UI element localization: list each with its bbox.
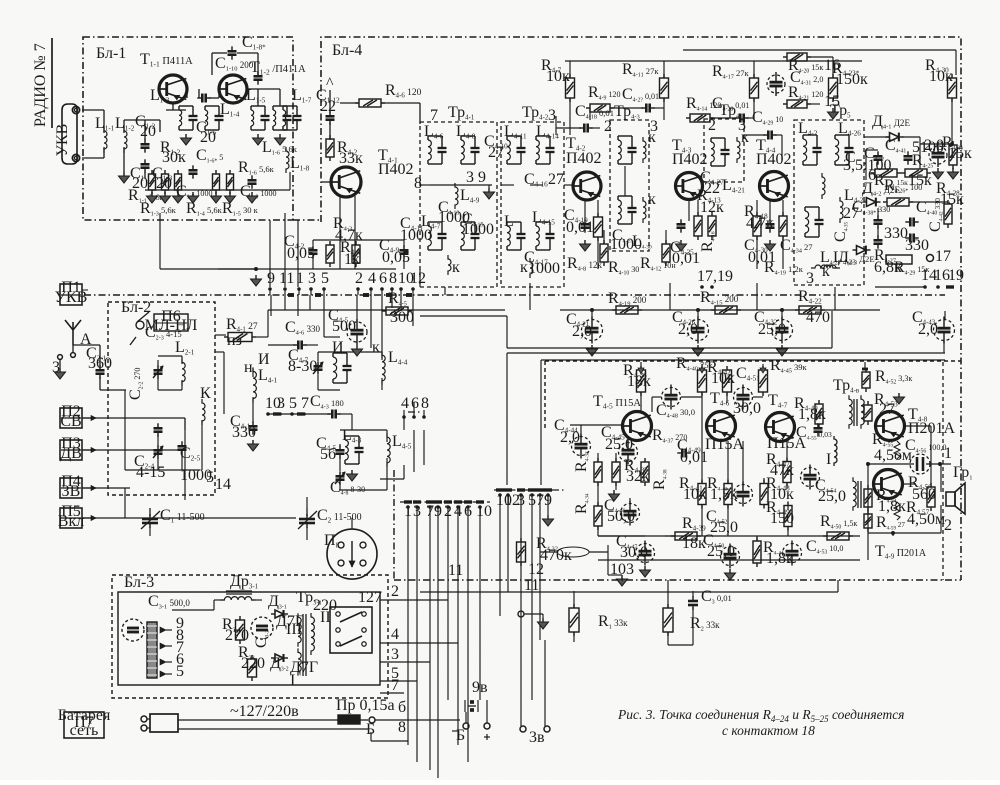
coil L4-26 <box>835 134 849 136</box>
plus terminal <box>701 364 703 368</box>
transformer driver winding <box>853 477 856 511</box>
svg-text:Вкл: Вкл <box>58 513 84 530</box>
svg-text:пз: пз <box>227 332 242 349</box>
terminal Б minus <box>463 723 469 729</box>
ground under row B <box>547 495 549 515</box>
wire <box>149 527 151 536</box>
transistor T1-1 leads <box>159 120 161 132</box>
svg-text:3: 3 <box>806 270 814 287</box>
ground <box>680 240 682 244</box>
svg-text:3: 3 <box>277 395 285 412</box>
svg-text:2: 2 <box>391 583 399 600</box>
transformer Тр4-1 box <box>420 122 497 287</box>
svg-text:17: 17 <box>935 248 951 265</box>
resistor R4-33 18к <box>594 462 602 482</box>
wire <box>569 61 571 78</box>
wire <box>667 580 669 608</box>
wire top bus 1 <box>565 60 862 62</box>
svg-text:к: к <box>648 129 656 146</box>
ground <box>584 240 586 244</box>
wire <box>499 592 501 616</box>
svg-text:1000: 1000 <box>462 221 494 238</box>
tank L4-10 <box>461 221 475 223</box>
wire <box>688 200 690 221</box>
svg-text:УКВ: УКВ <box>54 124 71 157</box>
svg-text:Бл-1: Бл-1 <box>96 45 126 62</box>
terminal 3в <box>520 726 526 732</box>
wire <box>184 418 186 430</box>
switch row B contacts <box>494 489 566 491</box>
coil L4-28 mid <box>822 173 825 199</box>
svg-text:н: н <box>244 359 253 376</box>
capacitor C1-3 20 <box>141 163 150 166</box>
svg-text:9в: 9в <box>472 679 488 696</box>
wire <box>82 289 88 291</box>
ground <box>356 345 358 349</box>
wire <box>640 392 642 411</box>
ground <box>59 360 61 368</box>
wire <box>178 719 338 721</box>
svg-text:Бл-3: Бл-3 <box>124 574 154 591</box>
wire bottom bus <box>420 591 838 593</box>
wire <box>584 200 586 221</box>
wire <box>370 732 372 741</box>
capacitor C3-2 500,0 <box>251 617 273 639</box>
svg-text:2: 2 <box>708 117 716 134</box>
transistor T1-1 П411А <box>159 75 187 103</box>
wire <box>876 201 878 203</box>
svg-text:8: 8 <box>389 270 397 287</box>
svg-text:27: 27 <box>488 144 504 161</box>
svg-text:1000: 1000 <box>400 227 432 244</box>
wire <box>501 184 514 186</box>
capacitor C4-31 2,0 <box>767 75 785 93</box>
wire <box>580 425 582 436</box>
wire <box>610 107 643 109</box>
ground <box>488 188 490 192</box>
svg-text:3: 3 <box>308 270 316 287</box>
wire <box>82 449 96 451</box>
coil L4-1 <box>253 367 256 402</box>
coil bottom Тр4-2 <box>530 258 533 278</box>
wire <box>380 599 448 601</box>
switch box П3 ДВ <box>60 440 82 460</box>
tank L4-3 <box>345 435 359 437</box>
capacitor C4-37 5100 <box>904 155 913 158</box>
svg-text:5: 5 <box>289 395 297 412</box>
svg-text:22: 22 <box>704 180 720 197</box>
tank L4-8 <box>461 135 475 137</box>
svg-text:5б: 5б <box>320 446 336 463</box>
svg-text:Б: Б <box>456 727 465 744</box>
svg-text:12: 12 <box>410 270 426 287</box>
tank Тр4-4 <box>711 137 725 139</box>
resistor R1-3 5,6к <box>162 174 169 190</box>
wire <box>597 453 599 462</box>
wire vertical drops to bus1 <box>591 310 593 320</box>
transistor T4-9 П201А <box>874 470 903 499</box>
resistor R4-8 12к <box>594 217 603 237</box>
switch row A contacts <box>400 501 490 503</box>
wire top bus 2 <box>683 49 956 51</box>
wire <box>419 269 421 287</box>
resistor R1-4 <box>175 174 182 190</box>
resistor R1-6 5,6к <box>227 174 234 190</box>
svg-text:8: 8 <box>414 175 422 192</box>
wire <box>340 102 359 104</box>
wire left long <box>184 418 186 500</box>
wire collector/emitter T4-1 <box>339 196 341 269</box>
choke Др3-1 <box>220 597 255 600</box>
block audio inner right dashed edge <box>942 362 944 580</box>
svg-text:500: 500 <box>332 318 356 335</box>
wire <box>157 360 159 366</box>
ground <box>898 393 900 397</box>
block Бл-3 outline <box>112 575 388 698</box>
block audio bottom dash-dot <box>394 579 961 581</box>
svg-text:30,0: 30,0 <box>733 400 761 417</box>
svg-text:ДВ: ДВ <box>60 445 82 462</box>
wire <box>573 591 575 608</box>
wire <box>769 200 771 221</box>
svg-text:20: 20 <box>200 129 216 146</box>
wire long verticals from above <box>506 353 508 485</box>
ground <box>832 108 834 112</box>
svg-text:ЗВ: ЗВ <box>62 483 81 500</box>
tank L4-2 osc <box>333 352 347 354</box>
rectifier diode arrows <box>160 627 166 633</box>
svg-text:10к: 10к <box>929 68 953 85</box>
wire <box>356 295 358 322</box>
terminal bars <box>288 293 294 297</box>
ground <box>185 134 187 138</box>
wire emitter bus <box>598 535 860 537</box>
svg-text:10к: 10к <box>546 68 570 85</box>
resistor R1 33к <box>569 608 579 632</box>
resistor R4-16 5,1к <box>708 216 716 236</box>
resistor R2 33к <box>663 608 673 632</box>
wire comb row B <box>499 495 501 592</box>
wire <box>145 189 290 191</box>
wire T4-2 base <box>555 116 557 135</box>
wire <box>144 120 146 140</box>
svg-text:П402: П402 <box>378 161 414 178</box>
wire <box>624 166 626 196</box>
svg-text:РАДИО № 7: РАДИО № 7 <box>32 43 49 127</box>
tank L1-5 <box>251 105 265 107</box>
wire <box>159 213 161 269</box>
wire bus row 1 <box>560 309 880 311</box>
svg-text:УКВ: УКВ <box>55 289 88 306</box>
svg-text:0,01: 0,01 <box>672 250 700 267</box>
svg-text:127: 127 <box>358 589 382 606</box>
ground <box>591 345 593 349</box>
wire <box>465 712 467 723</box>
transistor T1-2 П411А <box>219 75 247 103</box>
wire bus row 3 <box>507 352 945 354</box>
wire <box>864 136 889 138</box>
wire <box>124 390 126 470</box>
svg-text:30к: 30к <box>162 149 186 166</box>
svg-text:2: 2 <box>944 517 952 534</box>
terminal <box>518 611 524 617</box>
svg-text:330: 330 <box>905 237 929 254</box>
svg-text:2: 2 <box>355 270 363 287</box>
ground <box>697 345 699 349</box>
wire pin drops row2 <box>370 295 372 348</box>
wire <box>256 336 268 338</box>
svg-text:10: 10 <box>610 561 626 578</box>
ground <box>613 490 615 494</box>
wire bus row 2 <box>507 347 832 349</box>
transformer Тр5 box <box>794 120 864 285</box>
coil L4-23 <box>811 265 837 268</box>
resistor R4-54 1,8к <box>864 489 872 507</box>
ground <box>621 575 623 579</box>
tank L4-13 <box>507 221 521 223</box>
wire <box>72 345 74 352</box>
wire <box>520 540 522 726</box>
wire <box>339 444 341 446</box>
wire <box>607 552 609 575</box>
wire <box>318 351 382 353</box>
transistor T4-2 П402 <box>573 172 601 200</box>
wire <box>808 56 833 58</box>
wire <box>82 517 96 519</box>
svg-text:9: 9 <box>267 270 275 287</box>
wire <box>73 344 100 346</box>
svg-text:6: 6 <box>411 395 419 412</box>
svg-text:Рис. 3. Точка соединения R4–: Рис. 3. Точка соединения R4–24 и R5–25 с… <box>617 707 904 724</box>
tank L4-6 <box>428 135 442 137</box>
diode Д3-2 Д7Г <box>275 654 284 662</box>
capacitor C4-36 <box>874 155 883 158</box>
coil Тр4-4 right <box>737 137 740 163</box>
svg-text:16: 16 <box>824 57 840 74</box>
svg-text:8-30: 8-30 <box>288 358 317 375</box>
block Бл-2 outline <box>108 302 215 495</box>
resistor R4-34 10к <box>594 506 602 526</box>
svg-text:к: к <box>648 191 656 208</box>
wire <box>284 213 286 287</box>
coil L4-22 <box>840 197 843 223</box>
capacitor C4-39 330 <box>874 239 883 242</box>
wire <box>212 52 227 54</box>
terminal Б <box>369 717 375 723</box>
transistor T4-1 П402 <box>331 167 361 197</box>
ground <box>279 134 281 138</box>
switch box П5 Вкл <box>60 508 82 528</box>
svg-text:3: 3 <box>391 646 399 663</box>
wire <box>321 181 331 183</box>
coil L1-8 <box>286 147 289 173</box>
svg-text:9: 9 <box>478 169 486 186</box>
cable oval <box>557 547 589 557</box>
wire bus row 4 <box>541 359 945 361</box>
coil L4-9 <box>455 183 458 209</box>
wire <box>247 88 258 90</box>
capacitor C1-9 1000 <box>248 179 257 182</box>
wire <box>297 220 299 287</box>
svg-text:2: 2 <box>604 118 612 135</box>
plus terminal <box>864 362 866 368</box>
wire mid bus <box>268 413 330 415</box>
wire <box>351 518 353 529</box>
capacitor C3 0,01 <box>688 600 698 603</box>
svg-text:^: ^ <box>326 75 334 92</box>
svg-text:25,0: 25,0 <box>710 519 738 536</box>
transistor T4-3 П402 <box>676 173 703 200</box>
power inner box <box>118 592 380 685</box>
potentiometer contact 17 <box>927 255 934 262</box>
svg-text:20: 20 <box>140 123 156 140</box>
svg-text:470: 470 <box>806 309 830 326</box>
switch box П4 ЗВ <box>60 478 82 498</box>
ground <box>252 440 254 444</box>
transistor T4-8 П201А <box>876 412 905 441</box>
svg-text:П402: П402 <box>566 150 602 167</box>
wire inner bus <box>430 184 492 186</box>
svg-text:5: 5 <box>321 270 329 287</box>
svg-text:19: 19 <box>948 267 964 284</box>
wire <box>310 652 312 668</box>
svg-text:14: 14 <box>215 476 231 493</box>
wire <box>312 240 314 245</box>
wire loop to L4-4/L4-5 <box>413 430 415 465</box>
svg-text:б: б <box>398 699 406 716</box>
antenna <box>72 330 74 345</box>
coil L1-4 <box>205 105 219 107</box>
transformer Тр4-3 box <box>610 120 649 251</box>
svg-text:4: 4 <box>401 395 409 412</box>
wire <box>597 200 599 217</box>
svg-text:~127/220в: ~127/220в <box>230 703 299 720</box>
svg-text:11: 11 <box>448 562 463 579</box>
ground <box>729 569 731 573</box>
svg-text:СВ: СВ <box>60 413 81 430</box>
svg-text:3: 3 <box>548 107 556 124</box>
svg-text:I: I <box>826 451 831 468</box>
wire <box>375 719 460 721</box>
svg-text:6: 6 <box>379 270 387 287</box>
wire <box>951 99 953 143</box>
resistor R4-59 27 <box>864 514 872 528</box>
wire node 1 <box>868 463 914 465</box>
svg-text:с контактом 18: с контактом 18 <box>722 723 815 738</box>
tank circuit L1-3/C1-5 <box>179 105 193 107</box>
resistor R1-7 <box>213 174 220 190</box>
svg-text:к: к <box>372 339 380 356</box>
wire <box>268 344 295 346</box>
svg-text:1: 1 <box>944 445 952 462</box>
wire <box>329 98 331 113</box>
wire <box>589 551 608 553</box>
svg-text:П201А: П201А <box>908 420 956 437</box>
antenna tap <box>329 90 331 98</box>
wire <box>172 609 214 611</box>
wire right drop <box>944 311 946 320</box>
node 15 wire <box>919 137 921 169</box>
svg-text:3: 3 <box>52 359 60 376</box>
wire drop from Тр4-2 <box>529 283 531 310</box>
ground <box>542 618 544 622</box>
wire <box>380 680 417 682</box>
tank L4-15 <box>536 221 550 223</box>
svg-text:4: 4 <box>391 626 399 643</box>
svg-text:470к: 470к <box>540 547 572 564</box>
tank L4-? top <box>618 135 632 137</box>
wire comb row A <box>407 507 409 745</box>
coil L4-10 bottom <box>448 255 451 275</box>
ground <box>644 566 646 570</box>
tank L1-6 <box>273 105 287 107</box>
transformer Тр4-6 windings <box>849 395 852 429</box>
resistor R4-19 1,2к <box>779 216 787 236</box>
wire <box>380 661 430 663</box>
wire <box>252 414 254 423</box>
switch label box П6 МЛ-НЛ <box>154 314 188 331</box>
wire <box>172 103 174 110</box>
svg-text:к: к <box>452 259 460 276</box>
variable capacitor C4-8 8-30 <box>336 475 345 478</box>
svg-text:27: 27 <box>548 171 564 188</box>
plus terminal <box>640 362 642 368</box>
svg-text:4,50м: 4,50м <box>907 511 945 528</box>
wire <box>218 268 396 270</box>
svg-text:150к: 150к <box>836 71 868 88</box>
svg-text:7: 7 <box>391 677 399 694</box>
svg-text:3: 3 <box>626 561 634 578</box>
wire <box>522 700 524 726</box>
svg-text:11: 11 <box>279 270 294 287</box>
wire node 2 <box>868 532 941 534</box>
ground <box>952 168 954 172</box>
svg-text:к: к <box>520 259 528 276</box>
wire <box>96 517 296 519</box>
coil L1-7 tank <box>283 105 297 107</box>
block Бл-1 outline <box>83 37 293 220</box>
svg-text:8: 8 <box>421 395 429 412</box>
wire <box>753 61 755 78</box>
transformer Тр4-4 box <box>704 119 744 182</box>
tank L4-7 <box>428 221 442 223</box>
wire <box>753 396 763 398</box>
svg-text:22: 22 <box>320 98 336 115</box>
plus terminal <box>762 364 764 368</box>
svg-text:И: И <box>332 339 344 356</box>
svg-text:7: 7 <box>430 107 438 124</box>
capacitor C4-25 0,01 <box>677 223 686 226</box>
svg-text:3в: 3в <box>529 729 545 746</box>
tank L4-? bottom <box>618 195 632 197</box>
wire pin drops row1 <box>270 295 272 316</box>
wire 4 6 8 drops <box>403 410 405 417</box>
capacitor C1-7 1000 <box>189 169 198 172</box>
tank L4-11 <box>507 135 521 137</box>
svg-text:Бл-4: Бл-4 <box>332 42 362 59</box>
wire <box>187 88 199 90</box>
wire <box>556 127 581 129</box>
grounds in Бл-1 <box>151 192 153 196</box>
ground <box>254 267 258 271</box>
svg-text:П15А: П15А <box>705 436 745 453</box>
svg-text:П402: П402 <box>672 151 708 168</box>
svg-text:300: 300 <box>390 309 414 326</box>
svg-text:И: И <box>258 351 270 368</box>
svg-text:7: 7 <box>301 395 309 412</box>
svg-text:15: 15 <box>824 93 840 110</box>
wire <box>252 368 254 377</box>
